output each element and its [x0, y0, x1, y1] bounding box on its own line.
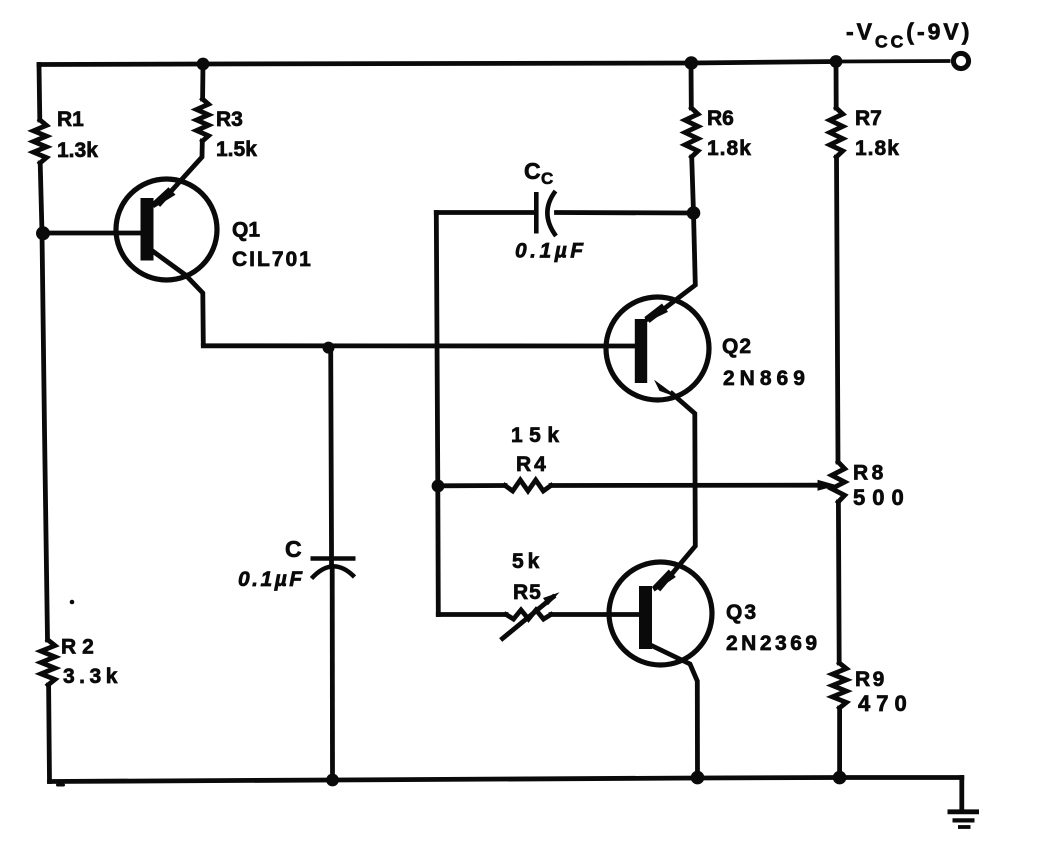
svg-text:500: 500 [853, 485, 911, 510]
svg-text:1.8k: 1.8k [855, 137, 900, 160]
svg-text:R2: R2 [61, 636, 100, 659]
svg-text:Q1: Q1 [232, 219, 260, 242]
svg-text:1.8k: 1.8k [707, 137, 752, 160]
svg-text:2N2369: 2N2369 [726, 632, 821, 655]
svg-text:1.3k: 1.3k [57, 139, 98, 162]
svg-text:R1: R1 [57, 108, 84, 131]
svg-text:Q2: Q2 [722, 335, 752, 358]
svg-text:R8: R8 [853, 462, 887, 485]
svg-text:CIL701: CIL701 [232, 248, 313, 271]
svg-text:15k: 15k [511, 424, 566, 447]
svg-text:C: C [285, 536, 302, 562]
svg-text:R5: R5 [513, 581, 542, 604]
svg-text:470: 470 [858, 691, 913, 716]
svg-text:Q3: Q3 [726, 601, 758, 624]
svg-text:1.5k: 1.5k [216, 138, 257, 161]
svg-text:5k: 5k [512, 550, 543, 573]
svg-text:R6: R6 [707, 107, 734, 130]
svg-text:R3: R3 [216, 108, 243, 131]
svg-text:C: C [524, 158, 541, 184]
svg-text:R7: R7 [855, 107, 882, 130]
svg-text:0.1µF: 0.1µF [238, 568, 305, 591]
svg-text:R4: R4 [516, 453, 549, 476]
svg-text:0.1µF: 0.1µF [515, 240, 587, 263]
svg-text:R9: R9 [855, 668, 887, 691]
svg-text:3.3k: 3.3k [63, 665, 122, 688]
svg-text:C: C [541, 169, 553, 188]
svg-text:2N869: 2N869 [723, 367, 810, 390]
